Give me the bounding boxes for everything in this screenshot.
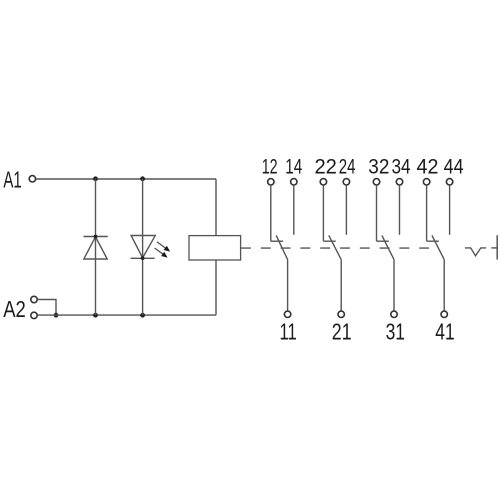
contact group 4 (41-42-44) <box>417 155 464 344</box>
contact seat 42 <box>427 240 439 242</box>
terminal A2 upper <box>31 296 37 302</box>
relay coil K1 <box>189 236 241 260</box>
svg-text:42: 42 <box>417 155 439 178</box>
LED V2 triangle <box>131 236 155 258</box>
terminal 32 <box>373 179 379 185</box>
node junction diode bottom <box>93 313 98 318</box>
wire 42 <box>426 185 428 241</box>
wire 14 <box>293 185 295 235</box>
wire 11 <box>287 260 289 311</box>
svg-text:A1: A1 <box>3 166 21 192</box>
LED emission arrow 2 <box>155 248 168 258</box>
contact seat 22 <box>323 240 335 242</box>
terminal 12 <box>268 179 274 185</box>
node junction LED bottom <box>140 313 145 318</box>
wire 12 <box>270 185 272 241</box>
svg-text:12: 12 <box>262 155 278 178</box>
wire coil branch vertical top <box>215 179 217 236</box>
wire 24 <box>345 185 347 235</box>
mechanical linkage dashed <box>241 247 430 249</box>
contact group 2 (21-22-24) <box>314 155 355 344</box>
svg-text:24: 24 <box>339 155 356 178</box>
contact seat 32 <box>377 240 389 242</box>
svg-text:14: 14 <box>285 155 302 178</box>
terminal 41 <box>441 311 447 317</box>
wire LED branch <box>142 179 144 315</box>
wire 44 <box>449 185 451 235</box>
terminal A2 lower <box>31 312 37 318</box>
terminal 24 <box>343 179 349 185</box>
node junction A2 jumper <box>54 313 59 318</box>
terminal A1 <box>29 176 35 182</box>
diode V1 cathode bar <box>84 236 108 238</box>
svg-text:32: 32 <box>368 155 389 178</box>
contact blade 4 <box>432 235 444 259</box>
actuator end bar <box>496 235 498 259</box>
wire A2 jumper <box>38 300 56 316</box>
terminal 44 <box>446 179 452 185</box>
wire 31 <box>393 260 395 311</box>
terminal 11 <box>284 311 290 317</box>
svg-text:34: 34 <box>391 155 410 178</box>
contact group 1 (11-12-14) <box>262 155 303 344</box>
svg-text:22: 22 <box>314 155 337 178</box>
svg-text:21: 21 <box>332 319 352 345</box>
wire A2 horizontal <box>38 314 216 316</box>
wire 32 <box>376 185 378 241</box>
svg-text:11: 11 <box>279 319 296 345</box>
contact blade 1 <box>276 235 287 259</box>
terminal 31 <box>391 311 397 317</box>
node LED apex <box>141 256 145 260</box>
svg-text:31: 31 <box>386 319 405 345</box>
terminal 21 <box>338 311 344 317</box>
actuator symbol <box>465 248 486 256</box>
svg-text:41: 41 <box>435 319 454 345</box>
wire 22 <box>322 185 324 241</box>
wire 41 <box>443 260 445 311</box>
diode V1 triangle <box>84 237 107 259</box>
node diode apex <box>94 235 98 239</box>
svg-text:44: 44 <box>444 155 464 178</box>
LED emission arrow 1 <box>157 242 170 252</box>
wire 34 <box>399 185 401 235</box>
terminal 14 <box>291 179 297 185</box>
node junction diode top <box>93 176 98 181</box>
wire diode branch <box>95 179 97 315</box>
terminal 34 <box>396 179 402 185</box>
contact seat 12 <box>271 240 283 242</box>
contact group 3 (31-32-34) <box>368 155 411 344</box>
contact blade 2 <box>329 235 341 259</box>
wire A1 horizontal <box>36 178 216 180</box>
node junction LED top <box>140 176 145 181</box>
wire 21 <box>340 260 342 311</box>
terminal 22 <box>320 179 326 185</box>
actuator link stub <box>491 247 497 249</box>
svg-text:A2: A2 <box>3 296 26 322</box>
wire coil branch vertical bottom <box>215 260 217 315</box>
contact blade 3 <box>382 235 394 259</box>
LED V2 cathode bar <box>131 257 155 259</box>
terminal 42 <box>423 179 429 185</box>
